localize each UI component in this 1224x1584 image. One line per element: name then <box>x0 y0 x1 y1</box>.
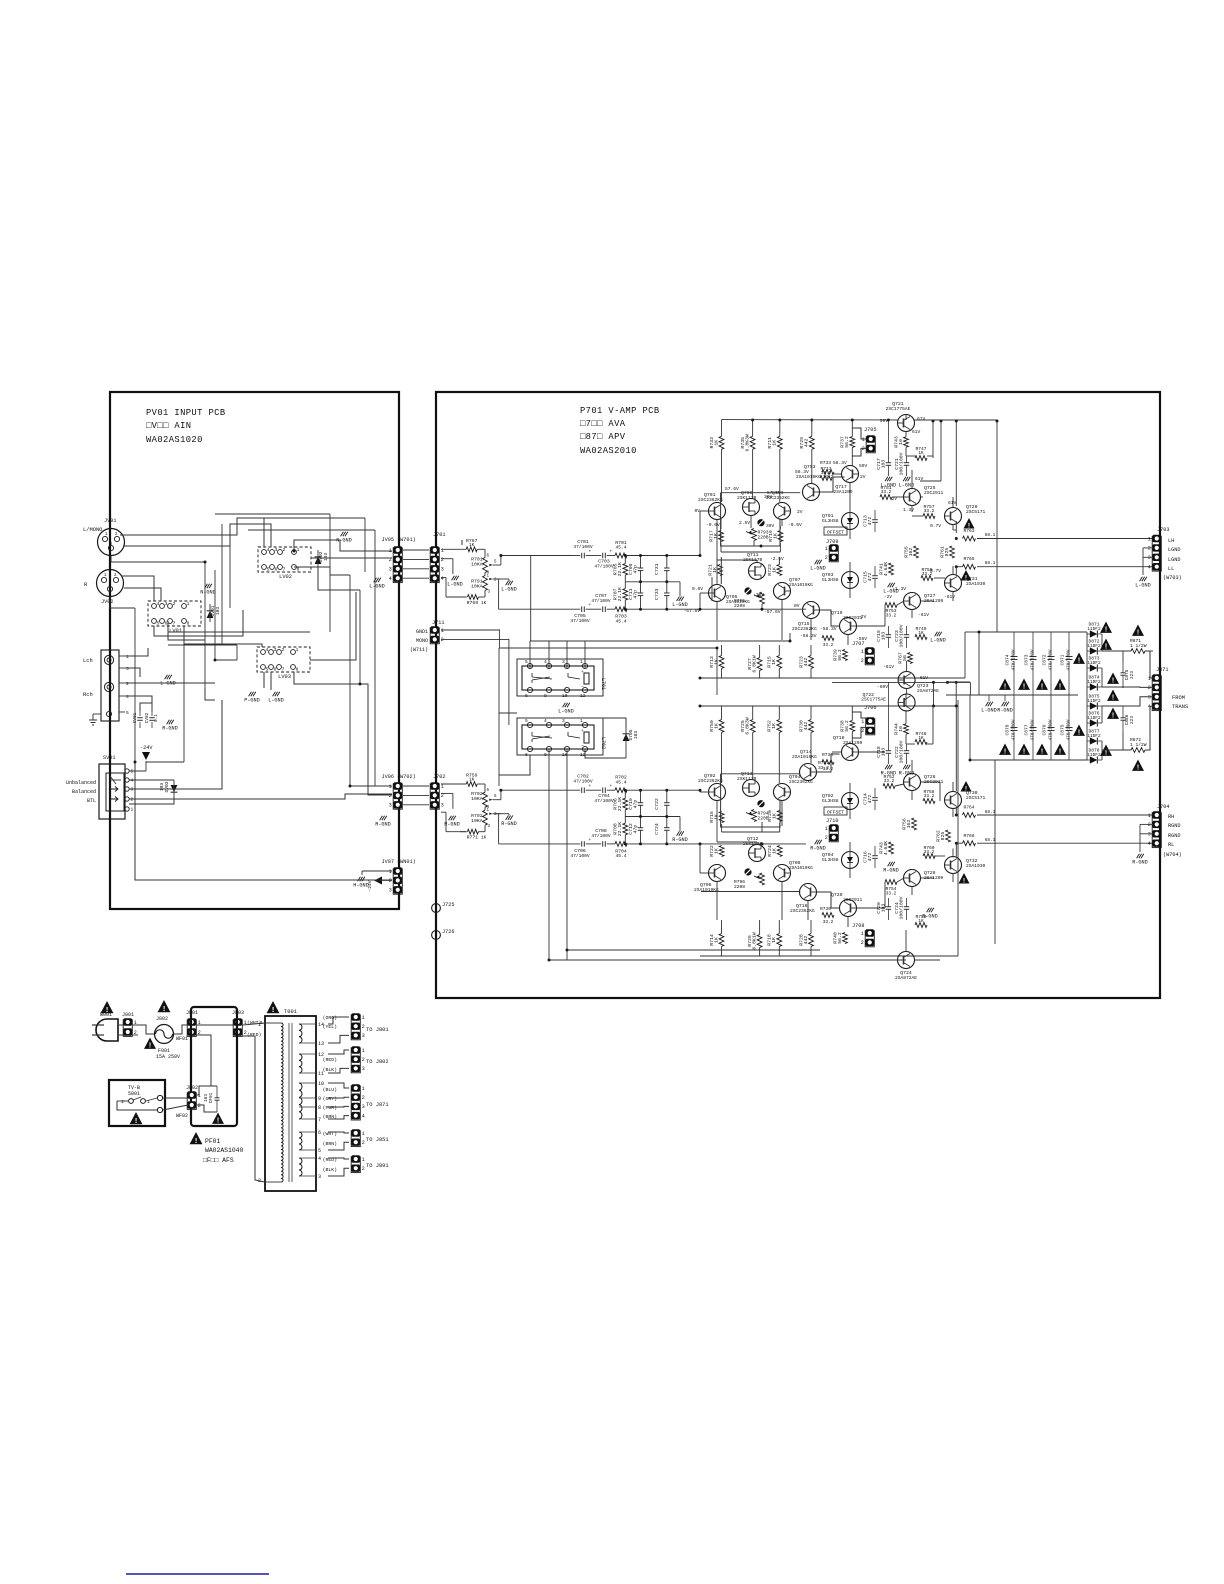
svg-text:47/100V: 47/100V <box>594 564 614 570</box>
svg-text:W001: W001 <box>100 1012 112 1018</box>
svg-text:2SA1930: 2SA1930 <box>966 581 986 587</box>
wires PV01 input mesh <box>120 518 264 547</box>
svg-text:1: 1 <box>441 628 444 634</box>
capacitor C704 47/100V <box>602 787 604 793</box>
svg-text:R-GND: R-GND <box>375 821 391 827</box>
relay L762 <box>517 718 603 755</box>
svg-text:2: 2 <box>861 940 864 946</box>
transistor Q719 <box>840 618 857 635</box>
svg-text:61V: 61V <box>948 500 957 506</box>
svg-text:1: 1 <box>297 547 300 553</box>
svg-text:!: ! <box>1111 678 1115 686</box>
svg-text:J001: J001 <box>122 1012 134 1018</box>
svg-text:1: 1 <box>580 718 583 724</box>
svg-text:L-GND: L-GND <box>1135 582 1151 588</box>
svg-text:6: 6 <box>318 1130 321 1136</box>
svg-text:11DF2: 11DF2 <box>1087 644 1101 649</box>
svg-text:3: 3 <box>131 787 134 793</box>
warning triangle diode bank 8 <box>1100 745 1112 756</box>
svg-text:PF01: PF01 <box>205 1138 221 1145</box>
svg-text:1K: 1K <box>481 836 487 841</box>
svg-text:470/100V: 470/100V <box>1031 719 1036 740</box>
ground R-GND at J710 <box>815 840 818 844</box>
svg-text:3: 3 <box>1148 832 1151 838</box>
capacitor C724 drv <box>904 906 910 908</box>
svg-text:825: 825 <box>940 832 946 841</box>
svg-text:2SA1019KG: 2SA1019KG <box>796 474 821 480</box>
svg-text:59V: 59V <box>880 418 889 424</box>
resistor R769 1K <box>467 595 478 600</box>
svg-text:4: 4 <box>362 1113 365 1119</box>
connector TO J802 <box>351 1048 360 1073</box>
svg-text:33.2: 33.2 <box>884 779 895 784</box>
svg-text:6: 6 <box>525 693 528 699</box>
warning triangle diode bank 4 <box>1107 673 1119 684</box>
svg-text:WA02AS1020: WA02AS1020 <box>146 435 203 445</box>
capacitor CV01 <box>137 717 143 719</box>
potentiometer R794 220B <box>752 810 757 822</box>
diode D878 11DF2 <box>1090 756 1098 763</box>
svg-text:2: 2 <box>362 1166 365 1172</box>
transformer case TV-B <box>109 1080 165 1126</box>
wire rectifier mid bus <box>993 694 1078 696</box>
svg-text:R766: R766 <box>963 833 974 839</box>
svg-text:1: 1 <box>362 1048 365 1054</box>
svg-text:Q707: Q707 <box>789 577 801 583</box>
svg-text:H-GND: H-GND <box>353 882 369 888</box>
svg-text:LH: LH <box>1168 538 1174 544</box>
svg-text:22.1K: 22.1K <box>617 797 623 812</box>
svg-text:33.2: 33.2 <box>823 920 834 925</box>
svg-text:!: ! <box>1111 695 1115 703</box>
capacitor C886 223 <box>1121 717 1126 719</box>
svg-text:J711: J711 <box>432 620 444 626</box>
connector TO J891 <box>351 1157 360 1173</box>
svg-text:JV02: JV02 <box>101 599 113 605</box>
svg-text:C876: C876 <box>1042 724 1048 735</box>
svg-text:SV01: SV01 <box>103 755 115 761</box>
svg-text:10KA: 10KA <box>471 796 483 802</box>
svg-text:3: 3 <box>441 567 444 573</box>
svg-text:162: 162 <box>906 820 912 829</box>
svg-text:5: 5 <box>266 667 269 673</box>
svg-text:-61V: -61V <box>944 594 955 600</box>
svg-text:J871: J871 <box>1156 667 1168 673</box>
ground R-GND below CV02 <box>167 720 170 724</box>
test point -30V <box>744 587 751 594</box>
wires mains path <box>119 1024 124 1026</box>
resistor R747 <box>915 456 927 461</box>
svg-text:(BLU): (BLU) <box>323 1087 338 1093</box>
capacitor C724 <box>664 827 670 829</box>
capacitor C711 47p <box>638 592 644 594</box>
svg-text:33.2: 33.2 <box>823 475 834 480</box>
warning triangle under C871 <box>1054 679 1066 690</box>
transformer secondary windings <box>299 1024 302 1043</box>
svg-text:30V: 30V <box>766 523 775 529</box>
svg-text:103: 103 <box>323 553 329 562</box>
svg-text:4: 4 <box>1148 565 1151 571</box>
svg-text:R736: R736 <box>820 906 831 912</box>
svg-text:C874: C874 <box>1005 654 1011 665</box>
svg-text:103: 103 <box>633 731 639 740</box>
resistor R762 <box>946 830 951 842</box>
svg-text:1: 1 <box>861 719 864 725</box>
svg-text:!: ! <box>1104 627 1108 635</box>
svg-text:!: ! <box>1136 765 1140 773</box>
svg-text:2V: 2V <box>860 474 866 480</box>
capacitor C877 470/100V <box>1032 695 1034 726</box>
svg-text:103: 103 <box>880 460 886 469</box>
svg-text:4: 4 <box>131 778 134 784</box>
svg-text:1K: 1K <box>469 543 475 548</box>
svg-text:J710: J710 <box>826 818 838 824</box>
capacitor C722 <box>664 802 670 804</box>
svg-text:(BRN): (BRN) <box>323 1141 338 1147</box>
transistor Q720 <box>840 900 857 917</box>
svg-text:1: 1 <box>389 869 392 875</box>
svg-text:7: 7 <box>283 567 286 573</box>
svg-text:P-GND: P-GND <box>244 697 260 703</box>
svg-text:+: + <box>589 784 592 789</box>
svg-text:1: 1 <box>126 654 129 660</box>
resistor R723 1K <box>777 565 782 576</box>
XLR connector JV01 <box>98 529 125 556</box>
wire extra left box runs <box>221 524 223 645</box>
svg-text:(W711): (W711) <box>410 647 428 653</box>
svg-text:10: 10 <box>318 1081 324 1087</box>
svg-text:2208: 2208 <box>734 884 745 890</box>
svg-text:1K: 1K <box>713 659 719 665</box>
svg-text:103: 103 <box>159 783 165 792</box>
svg-text:33.2: 33.2 <box>886 614 897 619</box>
svg-text:-0.6V: -0.6V <box>788 522 802 528</box>
svg-text:47/100V: 47/100V <box>591 833 611 839</box>
svg-text:-58.3V: -58.3V <box>820 626 837 632</box>
svg-text:1: 1 <box>825 546 828 552</box>
svg-text:9: 9 <box>544 693 547 699</box>
svg-text:TRANS: TRANS <box>1172 704 1188 710</box>
svg-text:R-GND: R-GND <box>162 725 178 731</box>
diode D873 11DF2 <box>1090 664 1098 671</box>
svg-text:10: 10 <box>562 693 568 699</box>
svg-text:1K: 1K <box>713 533 719 539</box>
warning triangle under C877 <box>1018 744 1030 755</box>
connector TO J851 <box>351 1131 360 1147</box>
svg-text:10: 10 <box>898 726 904 732</box>
svg-text:33.2: 33.2 <box>922 572 933 577</box>
svg-text:(WN01): (WN01) <box>397 859 416 865</box>
wire feedback vertical right <box>996 421 998 632</box>
ground R-GND under R743 <box>888 862 891 866</box>
svg-text:3: 3 <box>389 803 392 809</box>
ground P-GND below LV03 <box>249 692 252 696</box>
svg-text:472: 472 <box>867 517 873 526</box>
svg-text:4: 4 <box>544 718 547 724</box>
transistor Q703 <box>774 503 791 520</box>
svg-text:C731: C731 <box>654 563 660 575</box>
svg-text:1K: 1K <box>713 937 719 943</box>
svg-text:1 1/2W: 1 1/2W <box>1130 742 1147 748</box>
svg-text:!: ! <box>148 1043 152 1051</box>
svg-text:(W702): (W702) <box>397 774 416 780</box>
capacitor C702 47/100V <box>581 787 583 793</box>
svg-text:2: 2 <box>441 637 444 643</box>
svg-text:-0.6V: -0.6V <box>706 522 720 528</box>
resistor R717 <box>719 531 724 542</box>
transistor Q713 JFET <box>743 780 760 797</box>
transistor Q706 <box>709 865 726 882</box>
svg-text:1: 1 <box>187 601 190 607</box>
svg-text:GL3HS8: GL3HS8 <box>822 577 839 583</box>
svg-text:J708: J708 <box>852 923 864 929</box>
svg-text:442: 442 <box>803 722 809 731</box>
svg-text:4: 4 <box>318 1156 321 1162</box>
svg-text:2: 2 <box>362 1057 365 1063</box>
ground R-GND at C724 <box>927 908 930 912</box>
svg-text:10KA: 10KA <box>471 583 483 589</box>
svg-text:□V□□ AIN: □V□□ AIN <box>146 421 191 431</box>
optocoupler Q704 GL3HS8 <box>842 852 859 869</box>
svg-text:L-GND: L-GND <box>558 708 574 714</box>
resistor R760 <box>923 854 935 859</box>
diode DV03 <box>171 785 178 792</box>
svg-text:2V: 2V <box>797 509 803 515</box>
svg-text:L-GND: L-GND <box>501 586 517 592</box>
svg-text:220B: 220B <box>758 535 769 541</box>
svg-text:J704: J704 <box>1157 804 1169 810</box>
svg-text:223: 223 <box>1130 671 1135 679</box>
resistor R716 <box>719 812 724 823</box>
resistor R713 bottom <box>719 656 724 669</box>
svg-text:162: 162 <box>908 548 914 557</box>
page footer rule <box>126 1573 269 1575</box>
svg-text:1K: 1K <box>714 848 720 854</box>
svg-text:4: 4 <box>1148 841 1151 847</box>
ground L-GND below LV03 <box>273 692 276 696</box>
svg-text:(W704): (W704) <box>1163 852 1182 858</box>
svg-text:GL3HS8: GL3HS8 <box>822 857 839 863</box>
svg-text:L762: L762 <box>600 737 606 749</box>
svg-text:5: 5 <box>131 769 134 775</box>
svg-text:!: ! <box>964 785 968 792</box>
svg-text:47p: 47p <box>632 590 638 599</box>
warning triangle at J002 <box>158 1000 171 1012</box>
ground H-GND at JV07 <box>358 877 361 881</box>
transistor Q711 JFET <box>749 563 766 580</box>
svg-text:470/100V: 470/100V <box>1049 649 1054 670</box>
svg-text:3: 3 <box>275 547 278 553</box>
transistor Q707 <box>774 583 791 600</box>
svg-text:GL3HS8: GL3HS8 <box>822 798 839 804</box>
ground L-GND at J709 <box>815 560 818 564</box>
resistor R755 <box>914 546 919 558</box>
svg-text:JV06: JV06 <box>382 774 394 780</box>
svg-text:R734: R734 <box>822 752 833 758</box>
warning triangle under C875 <box>1054 744 1066 755</box>
svg-text:1: 1 <box>362 1131 365 1137</box>
svg-text:(BLK): (BLK) <box>323 1067 338 1073</box>
power arrow -24V at JV07 <box>374 877 382 885</box>
transistor Q731 <box>945 575 962 592</box>
wire stage box upper <box>721 493 780 546</box>
svg-text:LL: LL <box>1168 566 1174 572</box>
svg-text:22.1K: 22.1K <box>617 587 623 602</box>
svg-text:L761: L761 <box>600 678 606 690</box>
transistor Q732 <box>945 857 962 874</box>
wires optocoupler column <box>849 530 851 540</box>
svg-text:3: 3 <box>126 666 129 672</box>
svg-text:-57.6V: -57.6V <box>683 608 700 614</box>
svg-text:1 1/2W: 1 1/2W <box>1130 643 1147 649</box>
svg-text:0.7V: 0.7V <box>930 523 941 529</box>
svg-text:2SA1930: 2SA1930 <box>966 863 986 869</box>
svg-text:2: 2 <box>362 1024 365 1030</box>
svg-text:15A 250V: 15A 250V <box>156 1054 180 1060</box>
warning triangle under C878 <box>999 744 1011 755</box>
svg-text:TO J891: TO J891 <box>366 1163 389 1169</box>
switch S001 in TV-B <box>129 1099 134 1104</box>
svg-text:JV05: JV05 <box>382 537 394 543</box>
svg-text:1: 1 <box>862 437 865 443</box>
wire input network <box>441 783 466 785</box>
svg-text:GND1: GND1 <box>416 629 428 635</box>
capacitor C708 47/100V <box>602 841 604 847</box>
svg-text:1: 1 <box>861 931 864 937</box>
resistor R702 45.4 <box>615 788 627 793</box>
svg-text:1K: 1K <box>772 848 778 854</box>
warning triangle diode bank 2 <box>1100 639 1112 650</box>
capacitor C714 <box>872 797 878 799</box>
svg-text:J002: J002 <box>156 1016 168 1022</box>
potentiometer R702 10KA <box>483 792 488 807</box>
svg-text:1K: 1K <box>771 659 777 665</box>
svg-text:3: 3 <box>389 567 392 573</box>
svg-text:LV01: LV01 <box>169 628 182 634</box>
wire J711 runs <box>441 629 499 631</box>
svg-text:R733: R733 <box>820 460 831 466</box>
ground L-GND filter cluster <box>679 582 681 597</box>
diode D871 11DF2 <box>1090 630 1098 637</box>
transistor Q726 <box>904 774 921 791</box>
svg-text:Balanced: Balanced <box>72 789 96 795</box>
ground L-GND at C723 <box>935 632 938 636</box>
warning triangle lower output upper ch <box>960 570 971 581</box>
warning triangle at T001 <box>267 1001 280 1013</box>
svg-text:100/100V: 100/100V <box>898 624 904 647</box>
svg-text:2SA1019KG: 2SA1019KG <box>694 887 719 893</box>
resistor R733 <box>719 436 724 449</box>
svg-text:9: 9 <box>318 1096 321 1102</box>
warning triangle diode bank 6 <box>1107 708 1119 719</box>
svg-text:LV03: LV03 <box>278 674 291 680</box>
svg-text:R764: R764 <box>963 805 974 811</box>
svg-text:□87□ APV: □87□ APV <box>580 432 626 442</box>
wire rectifier top bus <box>979 631 1087 633</box>
wire top supply bus lower channel <box>700 705 956 707</box>
svg-text:10: 10 <box>898 439 904 445</box>
resistor R703 45.4 <box>615 607 627 612</box>
warning triangle in TV-B <box>130 1112 143 1124</box>
svg-text:WA02AS1040: WA02AS1040 <box>205 1147 244 1154</box>
svg-text:56.2: 56.2 <box>844 720 850 732</box>
svg-text:2: 2 <box>126 681 129 687</box>
svg-text:!: ! <box>271 1007 276 1015</box>
svg-text:5: 5 <box>267 567 270 573</box>
svg-text:2: 2 <box>362 1095 365 1101</box>
svg-text:JV07: JV07 <box>382 859 394 865</box>
svg-text:(ORG): (ORG) <box>323 1015 338 1021</box>
ground L-GND input pot <box>506 581 509 585</box>
resistor R741 <box>889 563 894 575</box>
svg-text:-58.3V: -58.3V <box>800 633 817 639</box>
svg-text:!: ! <box>194 1138 199 1146</box>
svg-text:2SC2362KG: 2SC2362KG <box>790 908 815 914</box>
svg-text:1K: 1K <box>469 778 475 783</box>
svg-text:+: + <box>581 670 584 675</box>
ground N-GND near LV02 <box>341 532 344 536</box>
svg-text:L-GND: L-GND <box>369 583 385 589</box>
ground R-GND filter cluster <box>679 817 681 832</box>
svg-text:2: 2 <box>131 797 134 803</box>
resistor R728 bottom2 <box>809 934 814 947</box>
resistor R749 1K drv <box>915 635 927 640</box>
wire stage box lower <box>720 557 722 584</box>
svg-text:470/100V: 470/100V <box>1031 649 1036 670</box>
resistor R744 <box>904 724 909 734</box>
transistor Q727 <box>904 593 921 610</box>
potentiometer R791 10KA <box>483 576 488 591</box>
svg-text:2: 2 <box>861 728 864 734</box>
test point -30V lower <box>744 868 751 875</box>
svg-text:1: 1 <box>861 649 864 655</box>
svg-text:J703: J703 <box>1157 527 1169 533</box>
svg-text:223: 223 <box>1130 716 1135 724</box>
svg-text:TO J802: TO J802 <box>366 1059 389 1065</box>
wire Q753 to Q717 <box>820 477 845 492</box>
capacitor C874 470/100V <box>1013 632 1015 655</box>
svg-text:2: 2 <box>1148 546 1151 552</box>
svg-text:2: 2 <box>1148 685 1151 691</box>
warning triangle PF01 <box>190 1132 203 1144</box>
svg-text:12: 12 <box>580 693 586 699</box>
svg-text:Lch: Lch <box>83 658 93 664</box>
svg-text:3: 3 <box>362 1066 365 1072</box>
svg-text:JV01: JV01 <box>104 518 116 524</box>
svg-text:1: 1 <box>296 647 299 653</box>
svg-text:!: ! <box>1058 749 1062 757</box>
capacitor C718 <box>886 750 892 752</box>
transistor Q728 <box>904 870 921 887</box>
warning triangle at W001 <box>101 1001 114 1013</box>
svg-text:0.1: 0.1 <box>154 714 159 722</box>
relay L761 <box>517 659 603 696</box>
svg-text:C872: C872 <box>1042 654 1048 665</box>
transistor Q725 <box>904 489 921 506</box>
svg-text:1K: 1K <box>772 440 778 446</box>
svg-text:47/100V: 47/100V <box>591 598 611 604</box>
test point J726 <box>432 931 441 940</box>
svg-text:2SA1209: 2SA1209 <box>843 740 863 746</box>
svg-text:68.1: 68.1 <box>985 533 996 538</box>
svg-text:Rch: Rch <box>83 692 93 698</box>
warning triangle under C874 <box>999 679 1011 690</box>
resistor R729 <box>809 436 814 449</box>
wire mid rail <box>625 816 680 818</box>
resistor R739 56.2 <box>843 650 848 661</box>
svg-text:6: 6 <box>274 667 277 673</box>
warning triangle under C876 <box>1036 744 1048 755</box>
